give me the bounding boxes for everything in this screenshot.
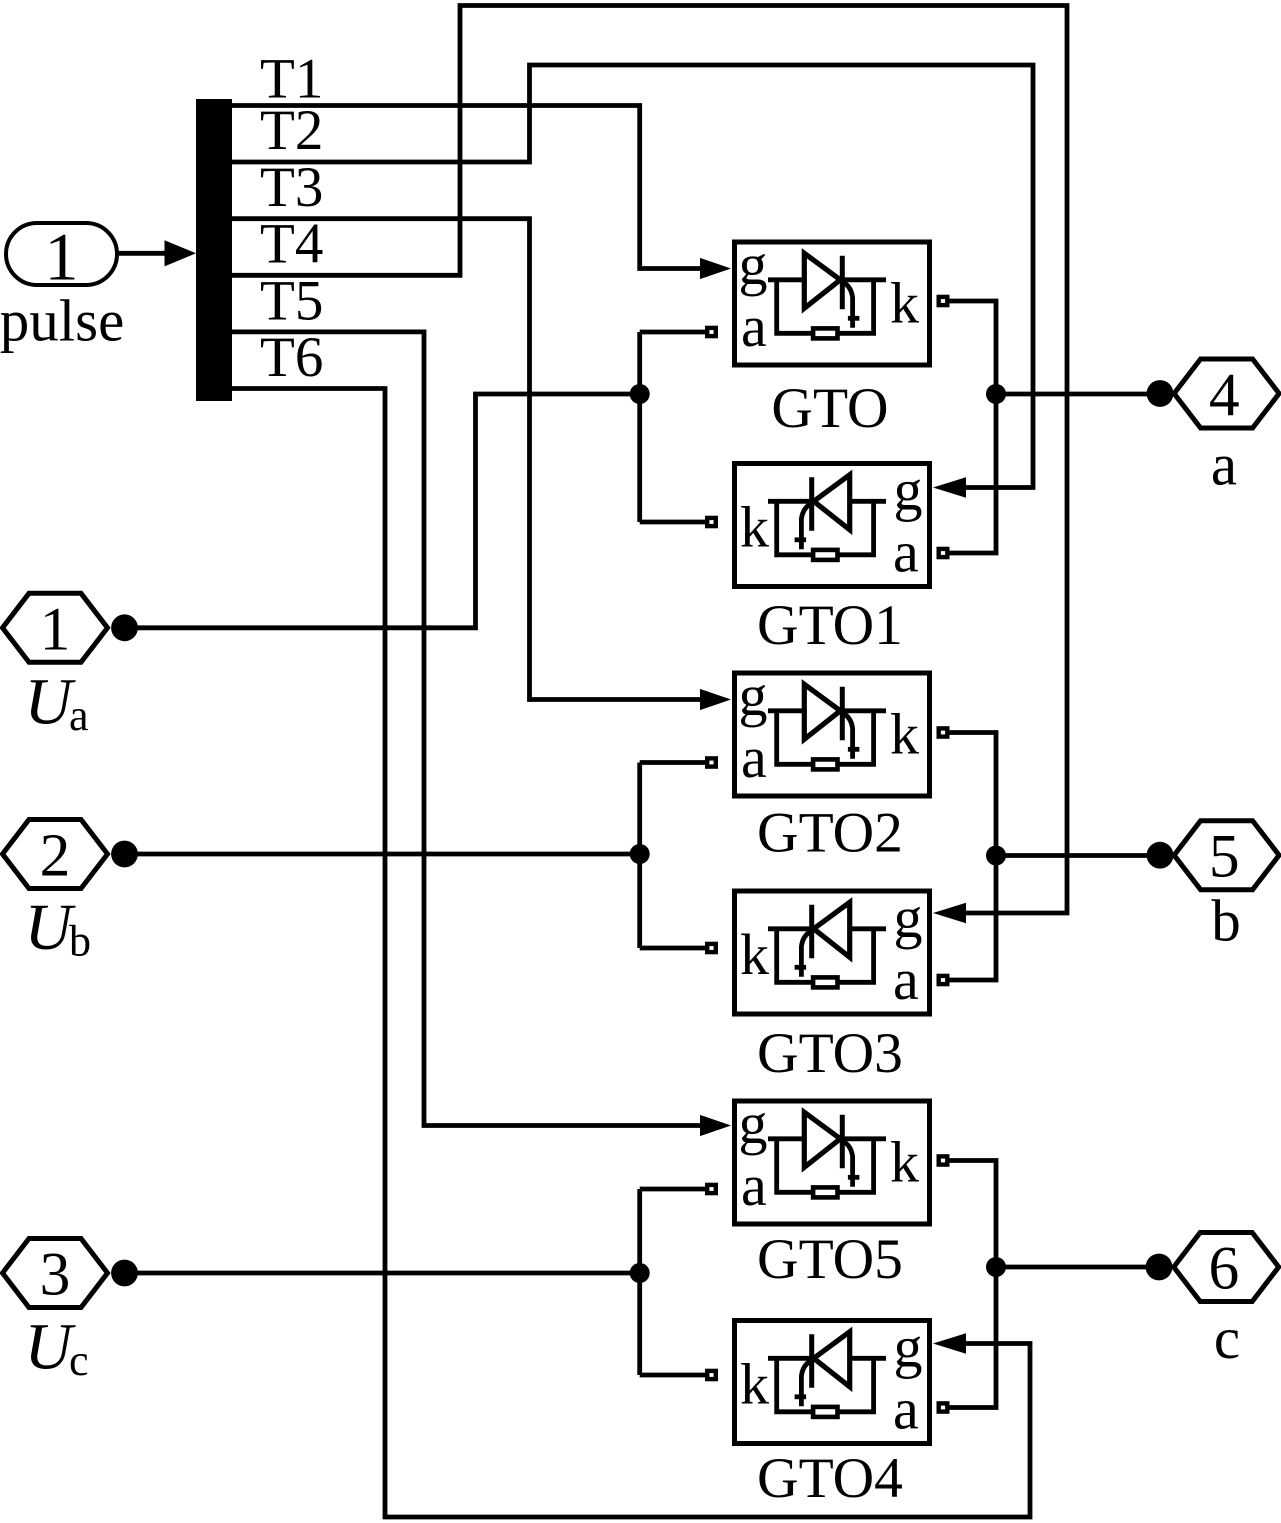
GTO3 block outline bbox=[735, 891, 930, 1014]
wire T1 (demux to GTO g) bbox=[232, 106, 731, 280]
arrowhead into GTO5 g bbox=[700, 1115, 731, 1136]
GTO3 internal conduction line bbox=[768, 926, 886, 931]
label b (phase b) bbox=[1211, 888, 1241, 954]
GTO4 port a square bbox=[939, 1403, 948, 1411]
label pulse bbox=[0, 288, 124, 354]
GTO4 thyristor symbol bbox=[814, 1332, 850, 1387]
junction node Uc bbox=[630, 1263, 650, 1283]
GTO block GTO bbox=[707, 232, 947, 365]
GTO5 thyristor symbol bbox=[804, 1112, 840, 1167]
arrowhead into GTO3 g bbox=[933, 903, 966, 924]
svg-text:pulse: pulse bbox=[0, 288, 124, 354]
label Ua bbox=[25, 666, 89, 741]
svg-text:k: k bbox=[890, 1130, 919, 1195]
port connection dot bbox=[111, 614, 138, 641]
svg-text:a: a bbox=[741, 294, 767, 359]
GTO1 block outline bbox=[735, 464, 930, 587]
label GTO bbox=[771, 377, 888, 440]
svg-text:GTO5: GTO5 bbox=[757, 1228, 903, 1291]
svg-text:k: k bbox=[890, 271, 919, 336]
svg-text:k: k bbox=[740, 922, 769, 987]
port connection dot bbox=[1146, 1254, 1173, 1281]
GTO2 port a square bbox=[707, 758, 716, 766]
svg-text:2: 2 bbox=[40, 822, 71, 890]
wire T2 (demux to GTO1 g) bbox=[232, 65, 1033, 498]
GTO3 snubber resistor bbox=[813, 977, 837, 987]
svg-text:a: a bbox=[741, 1153, 767, 1218]
svg-text:a: a bbox=[69, 691, 89, 740]
svg-text:1: 1 bbox=[40, 596, 71, 664]
GTO thyristor symbol bbox=[804, 253, 840, 308]
GTO port k square bbox=[939, 297, 948, 305]
label T5 bbox=[260, 270, 323, 333]
input hexagon port 1 bbox=[3, 593, 138, 663]
svg-text:k: k bbox=[890, 702, 919, 767]
arrowhead into GTO4 g bbox=[933, 1333, 966, 1354]
svg-text:GTO3: GTO3 bbox=[757, 1022, 903, 1085]
wire net a (GTO k and GTO1 a to output 4) bbox=[949, 301, 1160, 553]
svg-text:g: g bbox=[894, 885, 923, 950]
GTO2 block outline bbox=[735, 673, 930, 796]
svg-text:1: 1 bbox=[45, 219, 79, 295]
GTO5 port k square bbox=[939, 1156, 948, 1164]
GTO block GTO5 bbox=[707, 1091, 947, 1224]
label T1 bbox=[260, 48, 323, 111]
wire T6 (demux to GTO4 g) bbox=[232, 389, 1030, 1518]
GTO1 thyristor symbol bbox=[814, 475, 850, 530]
GTO5 internal conduction line bbox=[768, 1136, 886, 1141]
junction node Ub bbox=[630, 844, 650, 864]
svg-text:GTO4: GTO4 bbox=[757, 1447, 903, 1510]
GTO4 block outline bbox=[735, 1321, 930, 1444]
GTO block GTO2 bbox=[707, 663, 947, 796]
svg-text:b: b bbox=[69, 917, 91, 966]
output hexagon port 5 bbox=[1147, 821, 1280, 891]
wire net Ua (hexagon 1 to GTO a and GTO1 k) bbox=[125, 332, 706, 628]
svg-text:c: c bbox=[1214, 1305, 1240, 1371]
output hexagon port 4 bbox=[1147, 359, 1280, 430]
GTO5 port a square bbox=[707, 1185, 716, 1193]
wire net Uc (hexagon 3 to GTO5 a and GTO4 k) bbox=[125, 1189, 706, 1375]
label T4 bbox=[260, 213, 323, 276]
wire net b (GTO2 k and GTO3 a to output 5) bbox=[949, 733, 1160, 981]
wire T3 (demux to GTO2 g) bbox=[232, 219, 731, 710]
GTO snubber branch bbox=[777, 280, 874, 334]
GTO2 port k square bbox=[939, 728, 948, 736]
junction node c bbox=[986, 1257, 1006, 1277]
svg-text:GTO2: GTO2 bbox=[757, 802, 903, 865]
GTO1 internal conduction line bbox=[768, 499, 886, 504]
GTO5 block outline bbox=[735, 1101, 930, 1224]
input hexagon port 3 bbox=[3, 1239, 138, 1309]
svg-text:T5: T5 bbox=[260, 270, 323, 333]
GTO4 snubber resistor bbox=[813, 1407, 837, 1417]
wire T5 (demux to GTO5 g) bbox=[232, 332, 731, 1136]
GTO block GTO3 bbox=[707, 885, 947, 1014]
GTO3 snubber branch bbox=[777, 929, 874, 983]
svg-text:g: g bbox=[894, 458, 923, 523]
wire pulse to demux bbox=[117, 240, 196, 266]
port connection dot bbox=[111, 1260, 138, 1287]
junction node Ua bbox=[630, 384, 650, 404]
svg-text:3: 3 bbox=[40, 1241, 71, 1309]
label GTO5 bbox=[757, 1228, 903, 1291]
label Ub bbox=[25, 891, 92, 966]
GTO port a square bbox=[707, 328, 716, 336]
GTO1 snubber resistor bbox=[813, 550, 837, 560]
svg-text:g: g bbox=[739, 232, 768, 297]
GTO3 thyristor symbol bbox=[814, 902, 850, 957]
svg-text:k: k bbox=[740, 495, 769, 560]
demux bar bbox=[196, 99, 232, 401]
port connection dot bbox=[1147, 842, 1174, 869]
label GTO2 bbox=[757, 802, 903, 865]
svg-text:g: g bbox=[739, 663, 768, 728]
label GTO3 bbox=[757, 1022, 903, 1085]
port connection dot bbox=[111, 841, 138, 868]
svg-text:g: g bbox=[739, 1091, 768, 1156]
GTO2 internal conduction line bbox=[768, 708, 886, 713]
port connection dot bbox=[1147, 380, 1174, 407]
GTO2 thyristor symbol bbox=[804, 684, 840, 739]
junction node b bbox=[986, 846, 1006, 866]
svg-text:T4: T4 bbox=[260, 213, 323, 276]
wire net Ub (hexagon 2 to GTO2 a and GTO3 k) bbox=[125, 763, 706, 949]
GTO2 snubber resistor bbox=[813, 759, 837, 769]
svg-text:GTO1: GTO1 bbox=[757, 594, 903, 657]
GTO internal conduction line bbox=[768, 277, 886, 282]
GTO3 port a square bbox=[939, 976, 948, 984]
input port 1 (pulse) rounded block bbox=[6, 219, 117, 295]
svg-text:5: 5 bbox=[1209, 823, 1240, 891]
svg-text:6: 6 bbox=[1209, 1235, 1240, 1303]
GTO3 port k square bbox=[707, 944, 716, 952]
svg-text:a: a bbox=[893, 520, 919, 585]
GTO snubber resistor bbox=[813, 328, 837, 338]
GTO1 port k square bbox=[707, 518, 716, 526]
svg-text:a: a bbox=[893, 1377, 919, 1442]
GTO5 snubber branch bbox=[777, 1139, 874, 1193]
wire T4 (demux to GTO3 g) bbox=[232, 6, 1067, 924]
output hexagon port 6 bbox=[1146, 1233, 1279, 1303]
GTO block outline bbox=[735, 242, 930, 365]
label T2 bbox=[260, 99, 323, 162]
GTO block GTO1 bbox=[707, 458, 947, 587]
GTO1 port a square bbox=[939, 549, 948, 557]
label Uc bbox=[25, 1311, 89, 1386]
svg-text:T3: T3 bbox=[260, 156, 323, 219]
GTO4 port k square bbox=[707, 1371, 716, 1379]
GTO1 snubber branch bbox=[777, 501, 874, 555]
input hexagon port 2 bbox=[3, 820, 138, 890]
svg-text:c: c bbox=[69, 1336, 89, 1385]
svg-text:T2: T2 bbox=[260, 99, 323, 162]
GTO4 internal conduction line bbox=[768, 1356, 886, 1361]
junction node a bbox=[986, 384, 1006, 404]
wire net c (GTO5 k and GTO4 a to output 6) bbox=[949, 1161, 1160, 1408]
label a (phase a) bbox=[1211, 432, 1237, 498]
svg-text:4: 4 bbox=[1209, 362, 1240, 430]
arrowhead into GTO1 g bbox=[933, 477, 966, 498]
label T3 bbox=[260, 156, 323, 219]
svg-text:b: b bbox=[1211, 888, 1241, 954]
label c (phase c) bbox=[1214, 1305, 1240, 1371]
label GTO4 bbox=[757, 1447, 903, 1510]
arrowhead into GTO2 g bbox=[700, 689, 731, 710]
svg-text:a: a bbox=[893, 947, 919, 1012]
arrowhead into demux bbox=[165, 240, 197, 266]
GTO2 snubber branch bbox=[777, 711, 874, 765]
svg-text:k: k bbox=[740, 1352, 769, 1417]
arrowhead into GTO g bbox=[700, 258, 731, 279]
GTO5 snubber resistor bbox=[813, 1187, 837, 1197]
label GTO1 bbox=[757, 594, 903, 657]
svg-text:a: a bbox=[1211, 432, 1237, 498]
svg-text:a: a bbox=[741, 725, 767, 790]
svg-text:T6: T6 bbox=[260, 326, 323, 389]
label T6 bbox=[260, 326, 323, 389]
svg-text:g: g bbox=[894, 1315, 923, 1380]
GTO4 snubber branch bbox=[777, 1358, 874, 1412]
svg-text:GTO: GTO bbox=[771, 377, 888, 440]
GTO block GTO4 bbox=[707, 1315, 947, 1444]
